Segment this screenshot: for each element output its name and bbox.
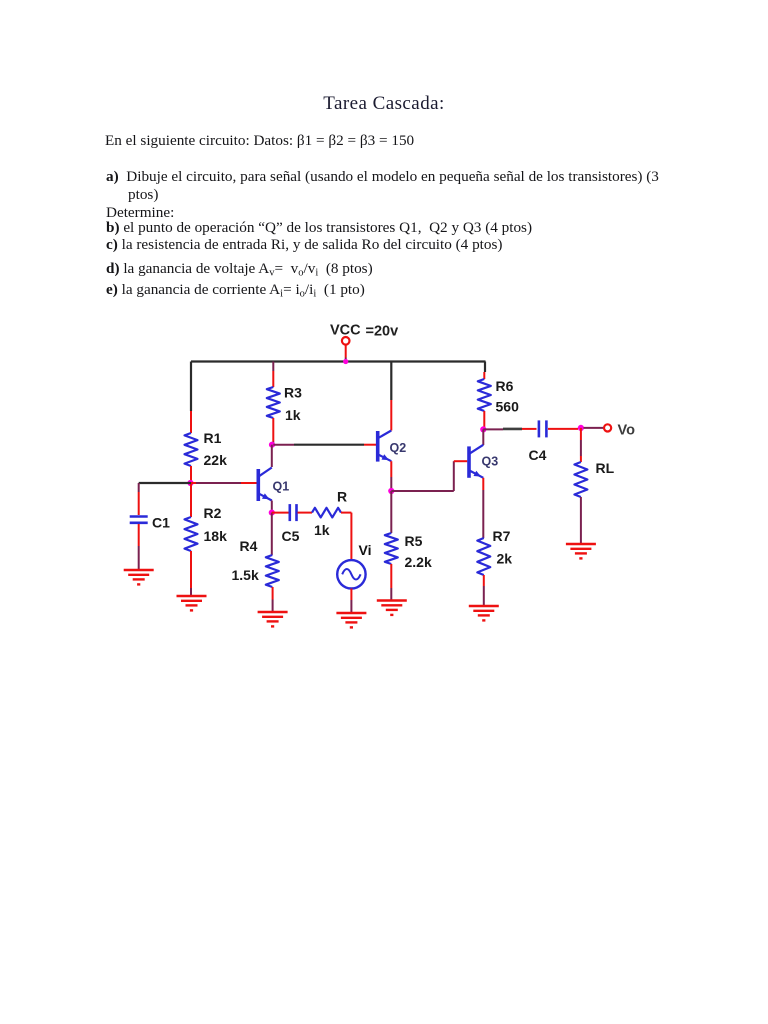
ground: C1: [124, 569, 154, 571]
ground: R4: [258, 611, 288, 613]
wire: output node down to Q3 collector: [482, 429, 484, 445]
title: [0, 93, 768, 115]
node: Q1 base node: [187, 480, 193, 486]
wire: C4 to Vo node: [548, 428, 578, 430]
node: Q1 emitter node: [269, 509, 275, 515]
wire: R5 to ground: [390, 564, 392, 588]
svg-text:C4: C4: [529, 447, 547, 463]
wire: rail to R1: [190, 362, 192, 412]
wire: C1 to ground: [138, 524, 140, 546]
transistor Q2: [376, 431, 380, 462]
wire: output node to C4: [483, 428, 503, 430]
wire: C1 top lead: [138, 483, 140, 492]
svg-text:1k: 1k: [285, 407, 301, 423]
svg-text:22k: 22k: [204, 452, 228, 468]
svg-text:1.5k: 1.5k: [232, 567, 259, 583]
wire: base node to R2: [190, 483, 192, 492]
wire: Vi to ground: [350, 589, 352, 601]
svg-text:Q2: Q2: [390, 441, 407, 455]
VCC terminal: [342, 337, 350, 345]
transistor Q1: [256, 469, 260, 501]
svg-text:1k: 1k: [314, 522, 330, 538]
resistor RL: [574, 462, 587, 497]
svg-text:C5: C5: [282, 528, 300, 544]
wire: emitter node to R4: [271, 513, 273, 555]
resistor R5: [385, 533, 398, 564]
svg-text:R3: R3: [284, 385, 302, 401]
wire: rail to Q2 collector: [390, 362, 392, 401]
svg-text:VCC: VCC: [330, 323, 361, 339]
wire: collector node to Q2 base: [273, 444, 294, 446]
svg-text:R1: R1: [204, 430, 222, 446]
wire: RL to ground: [580, 497, 582, 544]
svg-text:R7: R7: [493, 528, 511, 544]
svg-text:R5: R5: [405, 533, 423, 549]
resistor R3: [267, 387, 280, 418]
resistor R7: [477, 538, 490, 575]
wire: Vo node to RL: [580, 428, 582, 440]
wire: base node to C1: [139, 482, 191, 484]
item c: [106, 236, 502, 254]
resistor R6: [478, 379, 491, 411]
svg-text:R: R: [337, 489, 347, 505]
wire: node down to Q1 collector: [271, 445, 273, 467]
resistor R4: [266, 555, 279, 587]
ground: R2: [177, 595, 207, 597]
svg-text:C1: C1: [152, 515, 170, 531]
item a: [106, 168, 659, 186]
wire: R6 to output node: [483, 411, 485, 429]
svg-text:=20v: =20v: [366, 324, 399, 340]
wire: emitter node to C5: [272, 512, 289, 514]
node: VCC junction: [343, 359, 348, 364]
wire: Q3 emitter down to R7: [482, 478, 484, 490]
node: Q3 collector / output node: [480, 426, 486, 432]
capacitor C5: [288, 504, 291, 521]
item d: [106, 260, 373, 278]
svg-text:R4: R4: [240, 538, 258, 554]
node: Vo node: [578, 425, 584, 431]
svg-text:R2: R2: [204, 505, 222, 521]
node: Q2 emitter node: [388, 488, 394, 494]
svg-text:2k: 2k: [497, 551, 513, 567]
wire: R2 to ground: [190, 551, 192, 588]
wire: R3 to collector node: [272, 418, 274, 442]
capacitor C1: [130, 515, 148, 518]
wire: emitter node to Q3 base elbow: [391, 490, 454, 492]
wire: Vo node to terminal: [584, 427, 604, 429]
transistor Q3: [467, 446, 471, 477]
wire: rail corner to R6: [484, 362, 486, 373]
svg-text:R6: R6: [496, 378, 514, 394]
wire: base node to Q1 base: [191, 482, 196, 484]
wire: R4 to ground: [272, 587, 274, 600]
wire: Q2 emitter to R5: [390, 491, 392, 533]
svg-text:RL: RL: [596, 460, 615, 476]
wire: rail to R3: [272, 362, 274, 372]
resistor R2: [185, 517, 198, 551]
svg-text:Q1: Q1: [273, 480, 290, 494]
wire: C5 to R: [298, 512, 313, 514]
svg-text:2.2k: 2.2k: [405, 554, 432, 570]
resistor R1: [185, 433, 198, 466]
capacitor C4: [538, 420, 541, 437]
svg-text:Vo: Vo: [618, 423, 636, 439]
item b: [106, 219, 532, 237]
wire: R1 to base node: [190, 466, 192, 483]
wire: R7 to ground: [483, 575, 485, 586]
intro line: [105, 132, 414, 150]
svg-text:Vi: Vi: [359, 542, 372, 558]
svg-text:18k: 18k: [204, 528, 228, 544]
wire: R to Vi: [341, 512, 351, 514]
Vo terminal: [604, 424, 611, 431]
node: R3/Q1 collector node: [269, 442, 275, 448]
source Vi: [337, 560, 365, 588]
ground: R7: [469, 605, 499, 607]
ground: RL: [566, 543, 596, 545]
resistor R (1k): [312, 508, 341, 518]
ground: R5: [377, 599, 407, 601]
item e: [106, 281, 365, 299]
wire: VCC top rail: [191, 360, 486, 362]
svg-text:560: 560: [496, 399, 520, 415]
ground: Vi: [336, 612, 366, 614]
svg-text:Q3: Q3: [482, 455, 499, 469]
wire: Q1 emitter down: [271, 501, 273, 513]
wire: VCC stub: [345, 344, 347, 357]
wire: Q2 emitter down: [390, 461, 392, 477]
